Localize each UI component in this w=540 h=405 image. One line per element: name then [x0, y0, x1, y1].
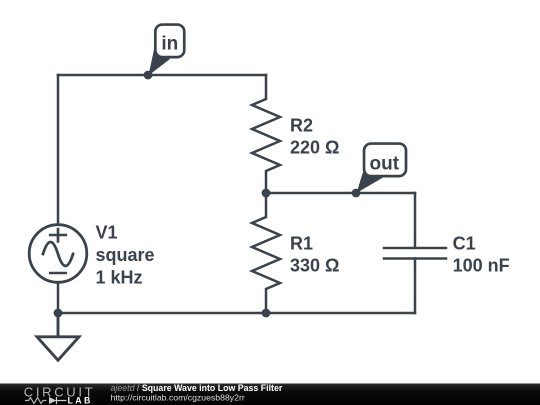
in flag pointer wedge	[149, 50, 171, 76]
ground symbol	[37, 313, 79, 360]
V1 plus sign	[50, 229, 66, 242]
wire bottom (ground net)	[58, 312, 415, 315]
svg-text:100 nF: 100 nF	[453, 256, 510, 276]
svg-text:in: in	[161, 34, 178, 55]
wire middle (out net)	[266, 192, 415, 195]
node flag "out" box	[364, 144, 406, 177]
svg-text:1 kHz: 1 kHz	[96, 267, 143, 287]
svg-text:http://circuitlab.com/cgzuesb8: http://circuitlab.com/cgzuesb88y2rr	[111, 393, 245, 403]
capacitor C1 plates	[384, 248, 446, 259]
svg-text:220 Ω: 220 Ω	[290, 138, 339, 158]
junction node V1/ground	[54, 309, 63, 318]
V1 minus sign	[50, 272, 66, 275]
out flag pointer wedge	[357, 172, 385, 193]
CircuitLab logo resistor squiggle	[25, 398, 47, 404]
svg-text:R2: R2	[290, 116, 313, 136]
junction node at in flag	[144, 71, 153, 80]
svg-text:R1: R1	[290, 234, 313, 254]
junction node R2/R1/out	[262, 189, 271, 198]
resistor R2	[252, 75, 280, 193]
CircuitLab logo diode	[49, 397, 57, 404]
resistor R1	[252, 193, 280, 313]
V1 sine wave	[43, 242, 73, 266]
svg-text:LAB: LAB	[68, 396, 93, 405]
svg-text:square: square	[96, 245, 155, 265]
svg-text:330 Ω: 330 Ω	[290, 256, 339, 276]
wire left column upper (to V1 top)	[57, 75, 60, 224]
voltage source V1 circle	[29, 225, 87, 283]
svg-text:out: out	[370, 154, 400, 175]
wire right column upper (out to C1)	[414, 193, 417, 248]
svg-text:C1: C1	[453, 233, 476, 253]
wire top (in net)	[58, 74, 266, 77]
footer bar	[0, 384, 540, 405]
wire right column lower (C1 to ground net)	[414, 259, 417, 314]
node flag "in" box	[155, 25, 184, 58]
svg-text:ajeetd / Square Wave into Low: ajeetd / Square Wave into Low Pass Filte…	[111, 383, 283, 393]
svg-text:V1: V1	[96, 222, 118, 242]
junction node R1 bottom	[262, 309, 271, 318]
wire left column lower (V1 bottom to ground junction)	[57, 283, 60, 314]
junction node at out flag	[352, 189, 361, 198]
